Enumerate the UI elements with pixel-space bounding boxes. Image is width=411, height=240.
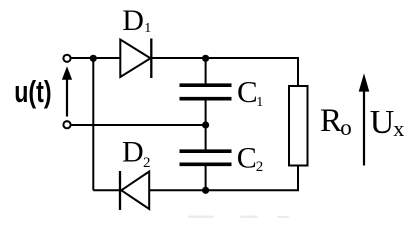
svg-text:C: C	[237, 74, 258, 109]
wire middle: lower terminal to node C	[72, 124, 206, 126]
svg-text:D: D	[122, 135, 144, 168]
diode D2 cathode bar	[119, 171, 121, 210]
svg-text:U: U	[370, 104, 395, 141]
wire C1 top lead	[205, 58, 207, 84]
diode D1 cathode bar	[150, 39, 152, 79]
svg-text:1: 1	[144, 21, 151, 36]
label C2	[237, 141, 264, 175]
node B junction (top of C1)	[202, 55, 209, 62]
terminal upper input	[63, 55, 70, 62]
label R0	[320, 103, 352, 140]
wire bottom left: D2 cathode to left vertical	[93, 189, 120, 191]
svg-text:2: 2	[143, 155, 151, 171]
wire right bottom: R bottom to corner, left to D2	[149, 166, 298, 191]
svg-text:D: D	[122, 4, 144, 37]
wire C2 bottom lead to bottom wire	[205, 166, 207, 190]
svg-text:1: 1	[256, 95, 263, 110]
terminal lower input	[63, 121, 70, 128]
capacitor C1 plates	[180, 85, 232, 99]
diode D2 triangle	[121, 172, 149, 210]
svg-text:u(t): u(t)	[14, 74, 51, 109]
node A junction	[90, 55, 97, 62]
label D2	[122, 135, 151, 171]
wire C2 top lead	[205, 125, 207, 149]
svg-text:R: R	[320, 103, 342, 139]
svg-text:C: C	[237, 141, 257, 174]
wire C1 bottom lead to node C	[205, 100, 207, 125]
svg-text:x: x	[393, 116, 404, 141]
resistor R0 body	[289, 86, 308, 166]
capacitor C2 plates	[180, 151, 232, 164]
wire top left: terminal to D1 anode	[72, 57, 121, 59]
label C1	[237, 74, 263, 110]
diode D1 triangle	[120, 40, 150, 78]
node D junction (bottom of C2)	[202, 187, 209, 194]
node C junction (between C1 and C2)	[202, 121, 209, 128]
arrow u(t)	[62, 66, 72, 116]
arrow Ux	[359, 73, 370, 165]
svg-text:o: o	[340, 115, 352, 140]
wire left vertical: node A down to bottom wire	[92, 58, 94, 190]
label Ux	[370, 104, 405, 141]
svg-text:2: 2	[256, 159, 263, 175]
label D1	[122, 4, 151, 37]
wire top right: D1 cathode to right corner, down to R top	[151, 58, 298, 86]
faint cropped caption remnants at bottom	[188, 216, 289, 219]
